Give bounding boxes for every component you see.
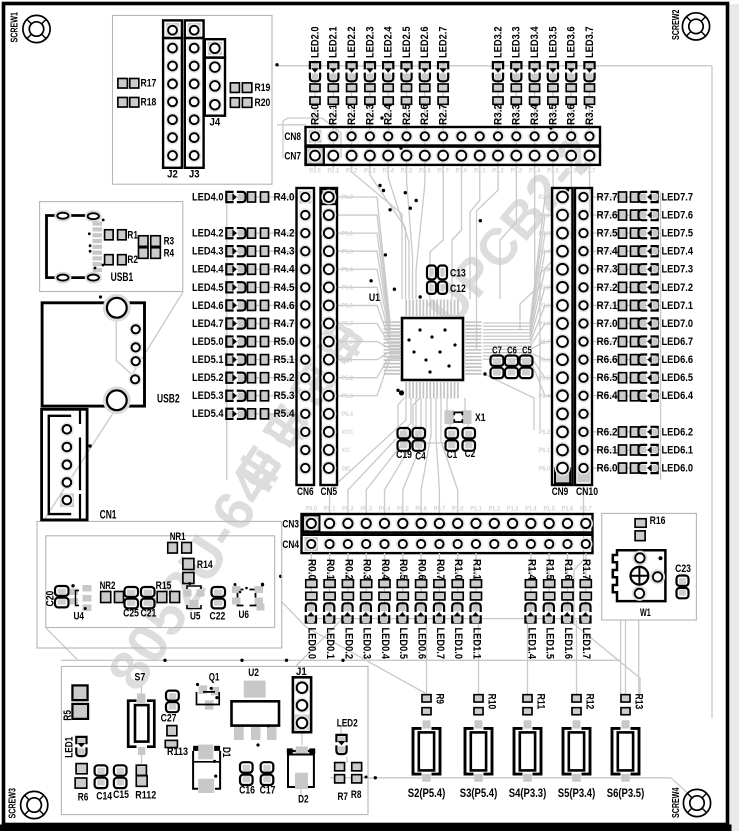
svg-text:LED2.0: LED2.0 <box>309 27 321 59</box>
svg-text:R7.2: R7.2 <box>597 282 618 294</box>
net labels P2/P3 under CN7 <box>309 168 595 175</box>
wire column P0.3 <box>365 553 367 619</box>
svg-text:P3.3: P3.3 <box>511 168 523 175</box>
section box USB1 <box>40 202 183 292</box>
svg-text:R0.5: R0.5 <box>397 559 409 580</box>
svg-text:P3.5: P3.5 <box>547 168 559 175</box>
svg-text:R13: R13 <box>633 694 645 710</box>
resistor R12 <box>572 694 596 715</box>
resistor R6.4 <box>597 390 639 402</box>
svg-text:LED3.5: LED3.5 <box>547 27 559 59</box>
resistor R4 <box>139 248 175 260</box>
svg-text:LED3.6: LED3.6 <box>566 27 578 59</box>
resistor R1.4 <box>525 559 537 600</box>
wire column P0.0 <box>310 553 312 619</box>
wire column P3.6 <box>570 60 572 168</box>
LED LED6.4 <box>639 390 694 402</box>
LED LED7.1 <box>639 300 694 312</box>
svg-text:P6.5: P6.5 <box>539 375 551 382</box>
LED LED6.6 <box>639 354 694 366</box>
svg-text:LED2.2: LED2.2 <box>346 27 358 59</box>
svg-text:NR2: NR2 <box>100 580 116 592</box>
svg-text:P3.1: P3.1 <box>474 168 486 175</box>
svg-text:R1: R1 <box>127 229 137 241</box>
svg-text:R6: R6 <box>78 792 89 804</box>
svg-text:LED1.7: LED1.7 <box>580 628 592 660</box>
svg-text:R3: R3 <box>164 236 175 248</box>
svg-text:LED6.2: LED6.2 <box>662 426 694 438</box>
wire row P1-4.7 <box>228 322 297 324</box>
wire column P2.4 <box>387 60 389 168</box>
wire CN4 to switches <box>426 620 428 695</box>
wire row P-6.6 <box>592 359 660 361</box>
wire row P-7.5 <box>592 232 660 234</box>
svg-text:R0.1: R0.1 <box>324 559 336 580</box>
wire row P1-5.2 <box>228 377 297 379</box>
svg-text:S7: S7 <box>135 671 146 683</box>
capacitor C16 <box>239 762 255 796</box>
svg-text:X1: X1 <box>475 412 486 424</box>
resistor R4.6 <box>248 300 295 312</box>
svg-text:R1.1: R1.1 <box>470 559 482 580</box>
svg-text:R7: R7 <box>338 791 349 803</box>
resistor R1.1 <box>470 559 482 600</box>
wire column P2.0 <box>314 60 316 168</box>
wire column P1.5 <box>548 553 550 619</box>
svg-text:S3(P5.4): S3(P5.4) <box>460 786 498 800</box>
svg-text:LED3.3: LED3.3 <box>511 27 523 59</box>
resistor R7.7 <box>597 191 639 203</box>
wire column P3.4 <box>534 60 536 168</box>
wire row P1-5.4 <box>228 413 297 415</box>
svg-text:LED2: LED2 <box>337 718 358 730</box>
svg-text:LED2.5: LED2.5 <box>401 27 413 59</box>
svg-text:LED7.0: LED7.0 <box>662 318 694 330</box>
resistor R7.3 <box>597 264 639 276</box>
resistor R6.0 <box>597 462 639 474</box>
section box bottom <box>61 666 368 814</box>
svg-text:J3: J3 <box>189 169 200 181</box>
wire column P1.6 <box>567 553 569 619</box>
LED LED7.3 <box>639 264 694 276</box>
svg-text:LED0.2: LED0.2 <box>342 628 354 660</box>
LED LED3.7 <box>584 27 596 82</box>
wire row P-7.7 <box>592 196 660 198</box>
LED LED2.7 <box>438 27 450 82</box>
svg-text:R2.5: R2.5 <box>401 104 413 125</box>
LED LED5.3 <box>192 390 246 402</box>
IC U2 <box>232 667 280 747</box>
svg-text:R5: R5 <box>62 710 74 721</box>
watermark text <box>95 312 378 700</box>
svg-text:P2.1: P2.1 <box>539 303 551 310</box>
IC U4 <box>70 585 92 623</box>
svg-text:LED1: LED1 <box>64 737 76 758</box>
LED LED6.1 <box>639 444 694 456</box>
LED LED7.5 <box>639 228 694 240</box>
svg-text:R10: R10 <box>486 694 498 710</box>
svg-text:LED4.4: LED4.4 <box>192 264 224 276</box>
svg-text:R7.7: R7.7 <box>597 191 618 203</box>
svg-text:P2.3: P2.3 <box>364 168 376 175</box>
wire column P1.1 <box>475 553 477 619</box>
svg-text:R3.2: R3.2 <box>492 104 504 125</box>
svg-text:R1.6: R1.6 <box>562 559 574 580</box>
connector CN5 <box>321 188 338 498</box>
svg-text:R5.4: R5.4 <box>274 408 295 420</box>
svg-text:LED1.6: LED1.6 <box>562 628 574 660</box>
capacitor C2 <box>463 428 476 460</box>
wire column P0.4 <box>384 553 386 619</box>
switch S3 <box>460 720 498 800</box>
via dots on U1 <box>407 328 456 373</box>
LED LED7.2 <box>639 282 694 294</box>
wire loop near R2.0 <box>283 118 341 158</box>
svg-text:R7.0: R7.0 <box>597 318 618 330</box>
svg-text:CN5: CN5 <box>321 486 338 498</box>
connector J1 <box>293 666 311 732</box>
LED LED0.1 <box>324 603 336 659</box>
screw SCREW3 <box>8 788 48 819</box>
capacitor C5 <box>520 345 533 378</box>
resistor R1.0 <box>452 559 464 600</box>
svg-text:R7.5: R7.5 <box>597 228 618 240</box>
svg-text:LED3.7: LED3.7 <box>584 27 596 59</box>
svg-text:P3.6: P3.6 <box>565 168 577 175</box>
svg-text:P2.3: P2.3 <box>539 266 551 273</box>
resistor R2.0 <box>309 84 321 125</box>
svg-text:LED3.2: LED3.2 <box>492 26 504 58</box>
svg-text:LED6.1: LED6.1 <box>662 444 694 456</box>
svg-text:P0.2: P0.2 <box>342 506 354 513</box>
svg-text:LED2.4: LED2.4 <box>383 27 395 59</box>
svg-text:P1.7: P1.7 <box>342 321 354 328</box>
LED LED6.7 <box>639 336 694 348</box>
wire column P0.2 <box>347 553 349 619</box>
LED LED0.3 <box>361 603 373 659</box>
wire X1 and caps nets <box>446 398 448 411</box>
svg-text:P2.5: P2.5 <box>539 230 551 237</box>
svg-text:R18: R18 <box>141 97 157 109</box>
svg-text:R5.0: R5.0 <box>274 336 295 348</box>
wire row P-7.1 <box>592 304 660 306</box>
svg-text:P1.5: P1.5 <box>342 285 354 292</box>
resistor R2.4 <box>383 84 395 125</box>
LED LED6.5 <box>639 372 694 384</box>
svg-text:C1: C1 <box>447 449 458 461</box>
LED LED2.0 <box>309 27 321 82</box>
resistor R10 <box>474 694 498 715</box>
svg-text:C23: C23 <box>675 563 691 575</box>
svg-text:LED4.5: LED4.5 <box>192 282 224 294</box>
LED LED2 <box>336 718 357 755</box>
wire CN8 pin1 stub <box>277 124 306 126</box>
resistor R3.5 <box>547 84 559 125</box>
wire column P0.5 <box>402 553 404 619</box>
svg-text:P6.0: P6.0 <box>539 465 551 472</box>
svg-text:C15: C15 <box>113 789 129 801</box>
svg-text:P1.4: P1.4 <box>342 266 354 273</box>
svg-text:R2: R2 <box>127 254 137 266</box>
connector CN8 <box>284 127 600 146</box>
svg-text:LED5.3: LED5.3 <box>192 390 224 402</box>
svg-text:P1.3: P1.3 <box>507 506 519 513</box>
connector CN3 <box>282 514 592 533</box>
svg-text:R6.2: R6.2 <box>597 426 618 438</box>
screw SCREW4 <box>671 787 711 818</box>
svg-text:P1.0: P1.0 <box>342 194 354 201</box>
svg-text:R4.2: R4.2 <box>274 228 295 240</box>
capacitor C4 <box>413 428 426 463</box>
svg-text:P2.6: P2.6 <box>539 212 551 219</box>
capacitor C12 <box>427 282 466 296</box>
svg-text:R112: R112 <box>135 789 156 801</box>
svg-text:R3.4: R3.4 <box>529 104 541 125</box>
LED LED2.2 <box>346 27 358 82</box>
svg-text:R4.5: R4.5 <box>274 282 295 294</box>
resistor R3.4 <box>529 84 541 125</box>
svg-text:R15: R15 <box>156 580 172 592</box>
svg-text:R12: R12 <box>584 694 596 710</box>
svg-text:R3.6: R3.6 <box>566 104 578 125</box>
LED LED0.4 <box>379 603 391 659</box>
svg-text:R0.0: R0.0 <box>306 559 318 580</box>
resistor R6.1 <box>597 444 639 456</box>
svg-text:C19: C19 <box>396 449 412 461</box>
svg-text:C16: C16 <box>239 785 255 797</box>
svg-text:R20: R20 <box>255 97 271 109</box>
via dots <box>71 63 569 779</box>
svg-text:U2: U2 <box>248 667 259 679</box>
svg-text:R7.1: R7.1 <box>597 300 618 312</box>
LED LED5.4 <box>192 408 246 420</box>
svg-text:LED6.5: LED6.5 <box>662 372 694 384</box>
resistor R18 <box>118 97 156 109</box>
svg-text:C12: C12 <box>450 283 466 295</box>
connector CN4 <box>282 535 592 553</box>
wire row P1-5.1 <box>228 359 297 361</box>
svg-text:LED4.0: LED4.0 <box>192 191 224 203</box>
svg-text:R6.7: R6.7 <box>597 336 618 348</box>
svg-text:CN6: CN6 <box>297 486 314 498</box>
section box W1 <box>602 513 697 620</box>
capacitor C15 <box>113 765 129 801</box>
svg-text:LED0.3: LED0.3 <box>361 628 373 660</box>
net labels above CN3 <box>306 506 592 513</box>
resistor R1.7 <box>580 559 592 600</box>
wire column P1.7 <box>585 553 587 619</box>
svg-text:Q1: Q1 <box>209 671 220 683</box>
svg-text:R8: R8 <box>351 789 362 801</box>
wire column P3.5 <box>552 60 554 168</box>
connector CN7 <box>284 147 600 165</box>
LED LED6.0 <box>639 462 694 474</box>
LED LED0.0 <box>306 603 318 659</box>
svg-text:P0.3: P0.3 <box>360 506 372 513</box>
LED LED5.1 <box>192 354 246 366</box>
svg-text:R19: R19 <box>255 82 271 94</box>
wire row P1-4.4 <box>228 268 297 270</box>
svg-text:R4.3: R4.3 <box>274 246 295 258</box>
resistor R3.6 <box>566 84 578 125</box>
svg-text:P2.0: P2.0 <box>539 321 551 328</box>
wire right vertical net <box>711 66 713 718</box>
svg-text:P1.0: P1.0 <box>452 506 464 513</box>
svg-text:P0.7: P0.7 <box>434 506 446 513</box>
svg-text:S5(P3.4): S5(P3.4) <box>558 786 596 800</box>
svg-text:R3.3: R3.3 <box>511 104 523 125</box>
svg-text:C14: C14 <box>96 791 112 803</box>
resistor R0.7 <box>434 559 446 600</box>
LED LED2.4 <box>383 27 395 82</box>
capacitor C19 <box>396 428 412 461</box>
resistor R112 <box>135 765 156 801</box>
crystal X1 <box>445 410 486 424</box>
LED LED1 <box>64 737 87 758</box>
wire column P2.2 <box>351 60 353 168</box>
resistor R113 <box>165 726 188 759</box>
wire column P2.1 <box>332 60 334 168</box>
svg-text:P1.1: P1.1 <box>470 506 482 513</box>
svg-text:P0.0: P0.0 <box>306 506 318 513</box>
svg-text:P3.7: P3.7 <box>584 168 596 175</box>
connector J4 <box>205 39 225 128</box>
svg-text:LED0.4: LED0.4 <box>379 628 391 660</box>
svg-text:R6.4: R6.4 <box>597 390 618 402</box>
resistor R3.2 <box>492 84 504 125</box>
wire top horizontal net <box>277 65 712 67</box>
svg-text:P0.6: P0.6 <box>415 506 427 513</box>
resistor R6.7 <box>597 336 639 348</box>
resistor R0.5 <box>397 559 409 600</box>
wire row P-6.5 <box>592 377 660 379</box>
capacitor C23 <box>675 563 691 598</box>
svg-text:R3.5: R3.5 <box>547 104 559 125</box>
resistor R5.3 <box>248 390 295 402</box>
LED LED1.0 <box>452 603 464 659</box>
svg-text:R4.4: R4.4 <box>274 264 295 276</box>
svg-text:LED6.4: LED6.4 <box>662 390 694 402</box>
svg-text:P1.5: P1.5 <box>543 506 555 513</box>
svg-text:LED4.2: LED4.2 <box>192 228 224 240</box>
svg-text:P0.4: P0.4 <box>379 506 391 513</box>
svg-text:P6.2: P6.2 <box>539 429 551 436</box>
svg-text:AVCC: AVCC <box>342 429 354 436</box>
resistor R9 <box>422 694 446 715</box>
wire small stubs bottom section <box>301 732 303 745</box>
resistor R5 <box>62 686 88 721</box>
svg-text:P5.1: P5.1 <box>342 357 354 364</box>
svg-text:CN7: CN7 <box>284 151 301 163</box>
svg-text:LED2.1: LED2.1 <box>328 27 340 59</box>
capacitor C22 <box>210 587 226 623</box>
svg-text:R5.3: R5.3 <box>274 390 295 402</box>
svg-text:R4: R4 <box>164 248 175 260</box>
resistor R2.6 <box>419 84 431 125</box>
capacitor C17 <box>260 762 276 796</box>
wire row P1-5.3 <box>228 395 297 397</box>
wire CN10 to U1 rows <box>483 197 552 323</box>
svg-text:S2(P5.4): S2(P5.4) <box>408 786 446 800</box>
svg-text:R0.6: R0.6 <box>416 559 428 580</box>
screw SCREW1 <box>10 12 51 43</box>
svg-text:LED5.1: LED5.1 <box>192 354 224 366</box>
svg-text:C22: C22 <box>210 611 226 623</box>
svg-text:R6.0: R6.0 <box>597 462 618 474</box>
net labels right of CN5 <box>342 194 354 472</box>
LED LED3.5 <box>547 27 559 82</box>
wire diagonal right <box>574 485 640 694</box>
svg-text:LED6.7: LED6.7 <box>662 336 694 348</box>
svg-text:P1.2: P1.2 <box>342 230 354 237</box>
wire USB2 net <box>116 318 132 376</box>
svg-text:C4: C4 <box>415 451 426 463</box>
svg-text:R5.2: R5.2 <box>274 372 295 384</box>
resistor R1.5 <box>544 559 556 600</box>
svg-text:P1.7: P1.7 <box>580 506 592 513</box>
board border frame <box>730 4 739 831</box>
LED LED1.6 <box>562 603 574 659</box>
resistor R2.1 <box>328 84 340 125</box>
svg-text:CN10: CN10 <box>576 486 598 498</box>
wire column P2.7 <box>442 60 444 168</box>
connector J3 <box>185 20 204 180</box>
svg-text:R2.2: R2.2 <box>346 104 358 125</box>
diode D1 <box>193 745 232 794</box>
svg-text:R3.7: R3.7 <box>584 104 596 125</box>
svg-text:C27: C27 <box>161 712 177 724</box>
capacitor C1 <box>446 428 459 461</box>
svg-text:LED1.5: LED1.5 <box>544 628 556 660</box>
svg-text:R11: R11 <box>535 694 547 710</box>
svg-text:R16: R16 <box>650 515 666 527</box>
svg-text:USB2: USB2 <box>157 393 180 406</box>
wire column P3.2 <box>497 60 499 168</box>
svg-text:R2.4: R2.4 <box>383 104 395 125</box>
svg-text:LED6.6: LED6.6 <box>662 354 694 366</box>
LED LED4.4 <box>192 264 246 276</box>
LED LED7.7 <box>639 191 694 203</box>
svg-text:R1.7: R1.7 <box>580 559 592 580</box>
svg-text:R2.1: R2.1 <box>328 104 340 125</box>
svg-text:P1.3: P1.3 <box>342 248 354 255</box>
svg-text:C2: C2 <box>465 448 476 460</box>
svg-text:J2: J2 <box>167 169 178 181</box>
resistor R2.7 <box>438 84 450 125</box>
wire CN5 to U1 rows <box>337 197 401 322</box>
wire column P2.3 <box>369 60 371 168</box>
svg-text:R4.6: R4.6 <box>274 300 295 312</box>
LED LED0.7 <box>434 603 446 659</box>
svg-text:VCC: VCC <box>342 447 351 454</box>
resistor R7.0 <box>597 318 639 330</box>
svg-text:LED7.1: LED7.1 <box>662 300 694 312</box>
svg-text:P5.2: P5.2 <box>342 375 354 382</box>
resistor R7 <box>335 763 348 803</box>
svg-text:R0.3: R0.3 <box>361 559 373 580</box>
svg-text:SCREW2: SCREW2 <box>671 9 682 40</box>
svg-text:P2.2: P2.2 <box>539 285 551 292</box>
wire column P1.0 <box>457 553 459 619</box>
svg-text:LED0.0: LED0.0 <box>306 628 318 660</box>
wire row P-6.1 <box>592 449 660 451</box>
resistor R4.4 <box>248 264 295 276</box>
resistor R4.5 <box>248 282 295 294</box>
svg-text:SCREW3: SCREW3 <box>8 788 19 819</box>
resistor network NR1 <box>168 531 192 553</box>
svg-text:P2.2: P2.2 <box>346 168 358 175</box>
resistor R0.6 <box>416 559 428 600</box>
